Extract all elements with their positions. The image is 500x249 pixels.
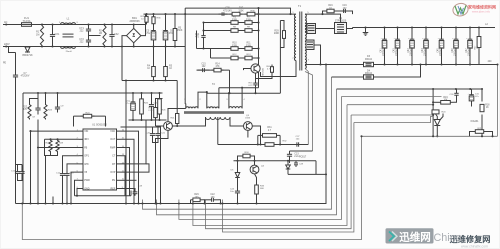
junction snub right B <box>257 29 259 31</box>
wire pin6 net <box>71 172 79 203</box>
junction DC+ x184 <box>184 13 186 15</box>
junction pin16 bot <box>137 202 139 204</box>
wire C13 bot <box>66 179 68 204</box>
wire above IC drop2 <box>73 116 75 126</box>
transformer T2 winding 2 <box>207 107 219 109</box>
junction rail80 d <box>125 79 127 81</box>
wire T2 w4 right lead <box>230 117 244 126</box>
wire R23 top <box>45 93 47 104</box>
junction fbb c <box>491 135 493 137</box>
junction T2 c <box>228 92 230 94</box>
capacitor C11 <box>151 99 153 105</box>
wire out cap 5 top lead <box>441 28 443 36</box>
resistor R26 <box>159 93 161 99</box>
junction hk b <box>140 119 142 121</box>
wire out cap 3 bottom lead <box>411 51 413 65</box>
wire bundle v5 <box>157 89 337 215</box>
capacitor C27 inline <box>294 144 297 146</box>
svg-text:1000u/16V: 1000u/16V <box>410 44 412 56</box>
resistor R1 <box>40 25 43 47</box>
wire C23 bot <box>289 160 291 164</box>
wire pin2 vert <box>45 139 51 155</box>
junction opto c <box>287 160 289 162</box>
wire sec snub up <box>323 11 353 14</box>
pin 2 stub U1 <box>79 138 83 140</box>
svg-text:R11: R11 <box>246 43 251 45</box>
resistor R31 <box>263 134 277 138</box>
wire C1718 top <box>16 164 23 166</box>
junction pin3 bot <box>37 202 39 204</box>
label C41 <box>380 44 385 56</box>
wire R30 top <box>156 99 163 104</box>
wire T2 w1 left lead <box>184 104 187 108</box>
wire opto rail <box>234 160 317 162</box>
junction R41 bot <box>176 125 178 127</box>
svg-text:REF: REF <box>111 187 116 190</box>
resistor R36 <box>153 14 155 17</box>
junction out cap 5 top <box>440 26 442 28</box>
junction T2 b <box>241 87 243 89</box>
wire ic right top <box>121 127 161 204</box>
watermark logo W <box>455 6 466 15</box>
wire bundle v6 <box>179 97 342 220</box>
wire out cap 6 top lead <box>455 28 457 36</box>
transistor Q1 <box>251 64 260 73</box>
wire T2 w4 left lead <box>173 117 206 126</box>
junction pin6 bot <box>70 202 72 204</box>
wire pin2 net <box>45 138 80 140</box>
junction out cap 3 top <box>411 26 413 28</box>
capacitor C22 <box>207 199 212 201</box>
ground G1 <box>365 30 367 33</box>
wire Q2 emitter <box>156 130 169 145</box>
junction fbb a <box>432 135 434 137</box>
wire out cap 6 bottom lead <box>455 51 457 65</box>
resistor R41 <box>176 114 179 124</box>
wire C10 leads <box>132 93 134 99</box>
wire R2728 bottom <box>51 153 58 156</box>
wire R30 wire <box>155 122 157 127</box>
resistor R11 <box>243 48 245 50</box>
wire T2 w4 tap <box>217 117 219 145</box>
wire cap2021 join <box>153 139 159 143</box>
svg-text:R22: R22 <box>23 107 28 109</box>
wire C11 leads <box>151 93 153 99</box>
resistor R21 <box>473 131 476 133</box>
junction gnd rail <box>364 26 366 28</box>
watermark logo ellipse <box>452 2 469 17</box>
AC line input terminal N <box>3 46 9 48</box>
svg-text:C14: C14 <box>195 34 200 36</box>
wire snubber rail C <box>197 48 259 50</box>
svg-text:C16: C16 <box>342 5 347 7</box>
junction vcc b <box>44 92 46 94</box>
capacitor C9 <box>57 104 59 108</box>
wire out cap 7 top lead <box>469 28 471 36</box>
fuse FU1 <box>22 23 32 27</box>
svg-text:1K: 1K <box>486 107 489 109</box>
svg-text:C22: C22 <box>210 194 215 196</box>
wire bundle v7 <box>193 105 347 226</box>
svg-text:2SK2645: 2SK2645 <box>263 67 265 77</box>
svg-text:CT: CT <box>112 155 116 158</box>
svg-text:C15: C15 <box>201 63 206 65</box>
wire out cap 5 bottom lead <box>441 51 443 65</box>
wire bottom AC rail <box>9 46 186 48</box>
svg-text:T3.15A: T3.15A <box>22 20 30 23</box>
wire R40 bot <box>256 75 273 79</box>
svg-text:3R3: 3R3 <box>84 138 89 141</box>
svg-text:330K: 330K <box>246 19 252 21</box>
junction senseA <box>432 114 434 116</box>
transistor Q3 <box>244 122 253 131</box>
label C45 <box>437 44 442 56</box>
resistor R22 <box>28 104 31 120</box>
wire out cap 1 top lead <box>384 28 386 36</box>
wire bottom pin net a <box>45 156 47 204</box>
capacitor C18 <box>21 169 23 172</box>
capacitor C14 <box>203 34 205 36</box>
resistor R2 <box>103 25 106 47</box>
svg-text:RMP: RMP <box>110 146 116 149</box>
pin 13 stub U1 <box>117 155 121 157</box>
junction vcc c <box>56 92 58 94</box>
resistor R19 <box>438 101 441 103</box>
svg-text:PE: PE <box>3 63 7 65</box>
wire Q3 out <box>252 126 260 145</box>
junction bridge ac2 <box>121 45 123 47</box>
junction C13 bot <box>66 202 68 204</box>
capacitor CX2 <box>111 25 113 35</box>
junction vcc a <box>37 92 39 94</box>
resistor R32 <box>265 143 274 147</box>
svg-text:1000u/16V: 1000u/16V <box>440 44 442 56</box>
optocoupler U2 led <box>286 165 291 169</box>
wire cap21 stub <box>157 127 159 131</box>
wire pin15 net <box>121 139 135 203</box>
svg-text:www.jdwx.info: www.jdwx.info <box>472 10 491 14</box>
wire earth vertical lower <box>15 80 17 204</box>
capacitor C13 <box>66 171 68 174</box>
svg-text:FB: FB <box>84 146 87 149</box>
svg-text:R18: R18 <box>485 105 490 107</box>
capacitor C23 <box>289 151 291 154</box>
wire cap2021 down <box>155 143 157 204</box>
junction R28 <box>56 138 58 140</box>
svg-text:2KBP206: 2KBP206 <box>129 20 140 23</box>
wire C22 drop <box>205 199 207 201</box>
junction out cap 5 bottom <box>440 63 442 65</box>
wire pin3 net <box>38 147 79 149</box>
wire Q1 source lower <box>255 87 257 94</box>
transistor Q4 <box>250 165 259 174</box>
capacitor CY1 <box>88 25 90 30</box>
svg-text:C945: C945 <box>245 118 251 120</box>
junction cap2021 bot <box>154 202 156 204</box>
svg-text:VIN: VIN <box>84 130 88 133</box>
capacitor CY2 <box>88 36 90 41</box>
svg-text:472/1KV: 472/1KV <box>223 10 232 12</box>
wire C17 leads <box>17 165 19 169</box>
junction top rail 2 <box>51 23 53 25</box>
wire C5 bottom <box>153 43 155 47</box>
svg-text:1M: 1M <box>99 33 102 35</box>
wire T2 w1 right lead <box>198 92 207 108</box>
svg-text:R16: R16 <box>328 5 333 7</box>
wire C11 bot <box>151 113 153 121</box>
wire primary left vertical <box>184 8 186 104</box>
diode D4 <box>364 75 374 79</box>
junction pin1 <box>29 130 31 132</box>
junction top rail 5 <box>111 23 113 25</box>
wire pin9 net <box>121 189 136 191</box>
svg-text:www.chinafix.com: www.chinafix.com <box>461 244 488 248</box>
junction snubA <box>202 21 204 23</box>
wire bridge DC+ up <box>141 14 146 35</box>
svg-text:150K: 150K <box>177 30 183 32</box>
junction R35 <box>145 13 147 15</box>
transformer T2 core <box>184 111 244 113</box>
svg-text:CX2: CX2 <box>114 34 119 36</box>
resistor R28 <box>56 139 59 152</box>
wire tl431 top <box>436 114 438 120</box>
wire C8 top <box>37 93 39 104</box>
resistor R5 <box>165 63 167 67</box>
junction bottom c <box>203 202 205 204</box>
wire Rpair right <box>279 135 281 144</box>
svg-text:47K: 47K <box>23 109 28 111</box>
junction out cap 4 bottom <box>425 63 427 65</box>
wire Q1 source <box>255 73 257 81</box>
resistor R20 <box>432 110 439 114</box>
pin 14 stub U1 <box>117 147 121 149</box>
wire out cap 2 bottom lead <box>397 51 399 65</box>
svg-text:1000u/16V: 1000u/16V <box>383 44 385 56</box>
junction fb b <box>455 88 457 90</box>
svg-text:STPR1620: STPR1620 <box>335 21 347 23</box>
junction R17 top <box>478 26 480 28</box>
wire zener bot <box>237 178 239 188</box>
junction ic right top bot <box>159 202 161 204</box>
wire earth vertical <box>15 53 17 73</box>
junction bottom rail 5 <box>111 45 113 47</box>
capacitor C24 <box>237 188 239 192</box>
junction outer top <box>360 135 362 137</box>
junction Rpair right <box>279 143 281 145</box>
wire sec taps <box>305 25 307 27</box>
wire snubber C left <box>196 31 198 49</box>
svg-text:KIA431: KIA431 <box>471 120 480 123</box>
wire pin14 net <box>121 148 130 196</box>
capacitor CX1 <box>52 25 54 35</box>
wire rc row drop <box>229 70 231 93</box>
wire pin3 vert <box>37 120 39 204</box>
capacitor C15 <box>198 69 203 71</box>
junction out cap 6 bottom <box>455 63 457 65</box>
wire pin4 net <box>63 156 80 171</box>
wire DC+ rail <box>144 13 296 15</box>
svg-text:R31: R31 <box>267 127 272 129</box>
resistor R6 <box>229 22 231 24</box>
wire snubber vertical <box>203 23 205 34</box>
pin 10 stub U1 <box>117 179 121 181</box>
capacitor C28 <box>295 161 297 163</box>
junction bus stub 3 <box>178 202 180 204</box>
junction bus stub 5 <box>221 202 223 204</box>
wire out cap 4 bottom lead <box>425 51 427 65</box>
capacitor C42 output <box>397 36 399 40</box>
junction T2 d <box>228 92 230 94</box>
transistor Q2 <box>164 122 173 131</box>
pin 11 stub U1 <box>117 171 121 173</box>
wire cap20 stub <box>152 127 154 131</box>
junction return bottom <box>125 202 127 204</box>
capacitor C8 <box>37 104 39 109</box>
wire fb rail -12 <box>337 88 483 90</box>
svg-text:150K: 150K <box>238 10 244 12</box>
junction Rpair left <box>257 143 259 145</box>
junction bridge bottom <box>133 45 135 47</box>
wire fb bottom rail <box>362 135 498 137</box>
wire snubber right vertical <box>258 8 260 88</box>
svg-text:家电维修资料网: 家电维修资料网 <box>468 4 496 10</box>
label C44 <box>422 44 427 56</box>
junction hk d <box>158 119 160 121</box>
wire pin12 net <box>121 120 147 164</box>
wire R41 bot <box>176 124 178 127</box>
wire Y-cap midpoint <box>89 35 101 37</box>
capacitor C17 <box>17 169 19 172</box>
wire C9 top <box>57 93 59 104</box>
svg-text:R37: R37 <box>239 8 244 10</box>
svg-text:R19: R19 <box>443 97 448 99</box>
diode D2 pack <box>307 24 316 34</box>
junction fb d <box>481 88 483 90</box>
wire T2 w3 right lead <box>241 88 243 109</box>
svg-text:25mH: 25mH <box>66 51 72 53</box>
wire under IC <box>75 195 132 197</box>
junction gnd bundle <box>325 63 327 65</box>
wire out cap 7 bottom lead <box>469 51 471 65</box>
capacitor C16 <box>339 10 344 12</box>
wire out cap 4 top lead <box>425 28 427 36</box>
junction C5 bottom <box>152 45 154 47</box>
label C46 <box>452 44 457 56</box>
svg-text:470u: 470u <box>145 33 151 35</box>
wire T2 top link <box>219 87 259 89</box>
junction DC+ c6 <box>164 13 166 15</box>
label C43 <box>408 44 413 56</box>
svg-text:FR104: FR104 <box>365 59 373 61</box>
varistor RV1 <box>25 47 30 52</box>
junction out cap 1 top <box>383 26 385 28</box>
svg-text:GND: GND <box>84 187 90 190</box>
wire bridge to bottom rail <box>133 43 135 47</box>
wire Q3 emitter <box>247 130 249 137</box>
wire pin1 vert <box>30 131 32 203</box>
junction R3 bottom <box>174 45 176 47</box>
wire sense A <box>351 114 433 116</box>
wire Q2 collector <box>168 109 186 122</box>
junction top rail 3 <box>87 23 89 25</box>
wire diode out <box>347 28 353 29</box>
svg-text:472/2KV: 472/2KV <box>21 76 30 78</box>
wire main primary return <box>125 81 127 204</box>
resistor R7 <box>243 22 245 24</box>
wire Rpair left <box>257 135 259 144</box>
resistor R37 <box>230 13 233 15</box>
resistor R17 <box>478 28 480 37</box>
wire hk lower rail <box>129 119 167 121</box>
optocoupler U2 loop <box>315 161 317 175</box>
resistor R10 <box>229 48 231 50</box>
junction DC+ r3 <box>174 13 176 15</box>
junction C12 bot <box>61 202 63 204</box>
wire Q4 top <box>254 161 256 165</box>
junction bus stub 2 <box>155 202 157 204</box>
wire bundle outer loop <box>22 136 361 239</box>
capacitor C19 <box>134 190 136 192</box>
junction tl431 a <box>436 135 438 137</box>
wire rc row <box>197 69 230 71</box>
resistor R24 <box>81 115 84 117</box>
junction snubC <box>202 47 204 49</box>
junction snubB <box>202 29 204 31</box>
svg-text:China: China <box>434 232 462 244</box>
wire zener top <box>237 161 239 168</box>
wire R34 l <box>238 156 241 161</box>
wire C10 bot <box>132 113 134 121</box>
pin 7 stub U1 <box>79 179 83 181</box>
junction bottom rail 4 <box>103 45 105 47</box>
wire above IC drop <box>105 116 107 126</box>
junction vcc f <box>150 92 152 94</box>
capacitor C43 output <box>411 36 413 40</box>
junction top rail 1 <box>41 23 43 25</box>
junction bus stub 1 <box>141 202 143 204</box>
wire sec tap to diode <box>305 28 335 30</box>
wire R29 drop2 <box>203 200 205 204</box>
wire bottom stub b <box>52 197 54 204</box>
junction C24 bot <box>236 202 238 204</box>
transformer T2 winding 4 <box>206 117 231 119</box>
wire vcc rail <box>23 92 163 94</box>
svg-text:1M: 1M <box>36 33 39 36</box>
capacitor C25 <box>219 13 223 15</box>
junction pin3 <box>37 146 39 148</box>
wire R18 bottom <box>481 115 483 137</box>
bridge rectifier BD1 <box>127 28 141 42</box>
inductor L1 bottom winding <box>61 47 76 49</box>
wire bundle v1 <box>305 69 308 145</box>
junction R19 <box>432 101 434 103</box>
junction C6 bottom <box>164 45 166 47</box>
wire pin10 net <box>121 179 137 181</box>
watermark chinafix box <box>386 228 434 243</box>
junction snub right A <box>257 21 259 23</box>
svg-text:PC817: PC817 <box>299 156 307 159</box>
svg-text:PG: PG <box>112 179 116 182</box>
wire T2 w2 right lead <box>218 88 220 109</box>
wire out cap 2 top lead <box>397 28 399 36</box>
svg-text:R10: R10 <box>232 43 237 45</box>
junction vcc g <box>158 92 160 94</box>
capacitor C10 <box>132 99 134 102</box>
junction snub right D <box>257 57 259 59</box>
junction bottom rail 2 <box>51 45 53 47</box>
junction out cap 2 top <box>396 26 398 28</box>
capacitor C21 <box>157 131 159 134</box>
